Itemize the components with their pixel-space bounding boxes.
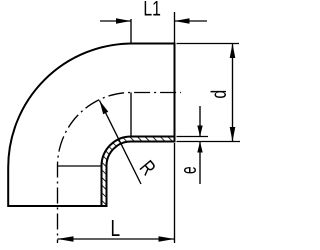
arrowhead L1 right [175, 18, 190, 24]
arrowhead L left [58, 236, 74, 242]
dimension e upper arrow line [199, 106, 201, 137]
extension line L1 left [130, 19, 132, 44]
right end face [174, 44, 176, 142]
dimension R radius line with arrow [100, 101, 142, 185]
svg-text:L: L [111, 217, 121, 242]
arrowhead R [100, 101, 109, 115]
elbow body outline [8, 44, 174, 207]
dimension L1 dimension line right part [175, 20, 208, 22]
section hatch of pipe wall [102, 137, 175, 207]
dimension e extension line top [177, 136, 209, 138]
dimension d dimension line [232, 44, 234, 142]
arrowhead e upper [197, 126, 202, 137]
dimension e lower arrow line [199, 142, 201, 185]
bore inner wall line [102, 137, 175, 207]
extension line L1 right [174, 12, 176, 44]
arrowhead L right [159, 236, 175, 242]
extension line d top [177, 43, 240, 45]
arrowhead d top [230, 44, 236, 59]
dimension L1 dimension line left part [100, 20, 131, 22]
arrowhead d bottom [230, 127, 236, 142]
extension line d bottom [177, 141, 241, 143]
bend/spigot boundary line horizontal [58, 165, 102, 167]
dimension L dimension line [58, 238, 175, 240]
svg-text:L1: L1 [143, 0, 161, 20]
centerline (dash-dot) [58, 93, 182, 244]
extension line L right [174, 143, 176, 243]
bend/spigot boundary line vertical [130, 93, 132, 137]
svg-text:e: e [175, 166, 200, 174]
arrowhead L1 left [116, 18, 131, 24]
arrowhead e lower [197, 142, 202, 153]
svg-text:d: d [207, 90, 231, 99]
